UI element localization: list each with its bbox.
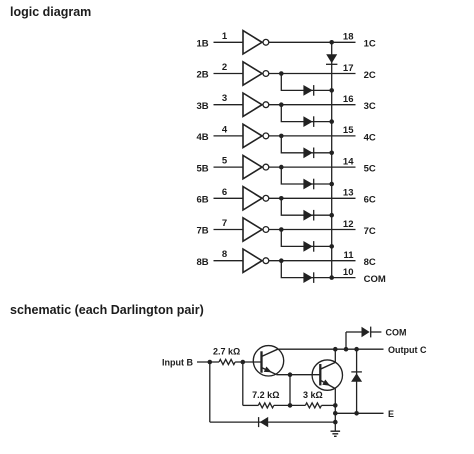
wire output 5C <box>269 166 356 168</box>
svg-text:7B: 7B <box>196 226 208 237</box>
svg-text:2.7 kΩ: 2.7 kΩ <box>213 347 240 357</box>
svg-text:3 kΩ: 3 kΩ <box>303 390 323 400</box>
svg-text:1: 1 <box>222 31 228 42</box>
wire base node to R2 <box>243 404 258 406</box>
wire Q2 collector riser <box>334 349 336 362</box>
svg-text:5B: 5B <box>196 163 208 174</box>
svg-text:Input B: Input B <box>162 357 193 367</box>
wire input 1B <box>214 41 244 43</box>
wire output 2C to diode D2 <box>281 74 332 91</box>
diode D1 (vertical on COM bus) <box>326 54 337 64</box>
wire bottom diode line <box>210 421 335 423</box>
wire output 1C <box>269 41 356 43</box>
svg-text:5C: 5C <box>364 164 376 175</box>
wire output 8C to diode D8 <box>281 261 332 278</box>
svg-text:17: 17 <box>343 63 354 74</box>
wire output 6C <box>269 197 356 199</box>
svg-text:6: 6 <box>222 187 227 198</box>
junction output 3C to diode D3 <box>279 102 284 107</box>
junction COM riser / rail <box>344 347 349 352</box>
svg-text:6C: 6C <box>364 195 376 206</box>
junction bottom line / ground stem <box>333 420 338 425</box>
rail Output C <box>278 348 384 350</box>
inverter U1 <box>243 31 269 54</box>
inverter U2 <box>243 62 269 85</box>
junction diode D7 / COM bus <box>329 244 334 249</box>
wire output 4C to diode D4 <box>281 136 332 153</box>
diode DOUT (output clamp, vertical) <box>351 349 362 413</box>
transistor Q1 <box>253 346 283 376</box>
junction output 6C to diode D6 <box>279 196 284 201</box>
svg-text:1B: 1B <box>196 39 208 50</box>
wire Q1 emitter to Q2 base <box>277 374 321 376</box>
junction Q1 base / R2 branch <box>241 360 246 365</box>
diode D7 <box>303 241 313 252</box>
svg-text:8B: 8B <box>196 257 208 268</box>
junction diode D4 / COM bus <box>329 151 334 156</box>
wire output 7C <box>269 229 356 231</box>
junction output 1C / COM bus <box>329 40 334 45</box>
diode D6 <box>303 210 313 221</box>
junction output 8C to diode D8 <box>279 258 284 263</box>
svg-text:16: 16 <box>343 94 354 105</box>
diode D5 <box>303 179 313 190</box>
inverter U5 <box>243 155 269 178</box>
wire output 3C to diode D3 <box>281 105 332 122</box>
wire COM riser <box>345 332 347 349</box>
wire output 8C <box>269 260 356 262</box>
svg-text:COM: COM <box>364 274 386 285</box>
svg-text:schematic (each Darlington pai: schematic (each Darlington pair) <box>10 303 204 317</box>
wire COM output <box>332 277 356 279</box>
junction Q2 collector / rail <box>333 347 338 352</box>
svg-text:5: 5 <box>222 156 228 167</box>
svg-text:13: 13 <box>343 188 354 199</box>
wire input 8B <box>214 260 244 262</box>
resistor R2 7.2k <box>258 403 274 408</box>
svg-text:4B: 4B <box>196 132 208 143</box>
svg-text:3C: 3C <box>364 101 376 112</box>
wire Input B <box>197 361 219 363</box>
wire output 2C <box>269 73 356 75</box>
svg-text:2C: 2C <box>364 70 376 81</box>
wire node base down to R2 line <box>242 362 244 405</box>
junction output 2C to diode D2 <box>279 71 284 76</box>
junction diode D2 / COM bus <box>329 88 334 93</box>
wire Q2 emitter down to ground <box>334 389 336 432</box>
wire junction down to R2/R3 node <box>289 375 291 406</box>
svg-text:12: 12 <box>343 219 354 230</box>
inverter U6 <box>243 187 269 210</box>
wire output 6C to diode D6 <box>281 198 332 215</box>
svg-text:7: 7 <box>222 218 227 229</box>
wire input 2B <box>214 73 244 75</box>
junction diode D8 / COM bus <box>329 275 334 280</box>
svg-text:3B: 3B <box>196 101 208 112</box>
svg-text:7.2 kΩ: 7.2 kΩ <box>252 390 279 400</box>
diode D4 <box>303 147 313 158</box>
junction Input B / bottom diode branch <box>208 360 213 365</box>
junction R3 / emitter vertical <box>333 403 338 408</box>
svg-text:8: 8 <box>222 249 227 260</box>
diode D8 <box>303 272 313 283</box>
wire output 7C to diode D7 <box>281 230 332 247</box>
svg-text:6B: 6B <box>196 195 208 206</box>
rail E <box>335 412 383 414</box>
junction output 7C to diode D7 <box>279 227 284 232</box>
svg-text:2: 2 <box>222 62 227 73</box>
junction Q2 emitter / E rail <box>333 411 338 416</box>
inverter U3 <box>243 93 269 116</box>
svg-text:E: E <box>388 409 394 419</box>
svg-text:1C: 1C <box>364 39 376 50</box>
svg-text:4C: 4C <box>364 132 376 143</box>
svg-text:COM: COM <box>386 327 407 337</box>
svg-text:2B: 2B <box>196 70 208 81</box>
wire output 5C to diode D5 <box>281 167 332 184</box>
junction diode D6 / COM bus <box>329 213 334 218</box>
inverter U8 <box>243 249 269 272</box>
wire Input B down to diode line <box>209 362 211 422</box>
wire input 6B <box>214 197 244 199</box>
wire output 3C <box>269 104 356 106</box>
svg-text:3: 3 <box>222 93 227 104</box>
wire R3 to emitter line <box>322 404 336 406</box>
wire input 7B <box>214 229 244 231</box>
wire DCOM to COM terminal <box>371 331 382 333</box>
svg-text:15: 15 <box>343 125 354 136</box>
junction R2/R3 node <box>288 403 293 408</box>
transistor Q2 <box>312 360 342 390</box>
svg-text:8C: 8C <box>364 257 376 268</box>
ground <box>331 431 341 436</box>
wire input 5B <box>214 166 244 168</box>
junction diode D3 / COM bus <box>329 119 334 124</box>
svg-text:Output C: Output C <box>388 345 427 355</box>
svg-text:14: 14 <box>343 156 354 167</box>
wire R2 to R3 <box>274 404 306 406</box>
svg-text:4: 4 <box>222 124 228 135</box>
wire R1 to Q1 base <box>235 361 261 363</box>
wire COM branch <box>346 331 362 333</box>
diode D2 <box>303 85 313 96</box>
junction DOUT / E rail <box>354 411 359 416</box>
wire COM bus <box>331 42 333 277</box>
resistor R1 2.7k <box>219 359 235 364</box>
diode D3 <box>303 116 313 127</box>
svg-text:18: 18 <box>343 32 354 43</box>
resistor R3 3k <box>305 403 321 408</box>
wire input 4B <box>214 135 244 137</box>
junction DOUT / rail <box>354 347 359 352</box>
inverter U4 <box>243 124 269 147</box>
junction diode D5 / COM bus <box>329 182 334 187</box>
wire input 3B <box>214 104 244 106</box>
wire output 4C <box>269 135 356 137</box>
junction output 5C to diode D5 <box>279 165 284 170</box>
inverter U7 <box>243 218 269 241</box>
diode DIN (input clamp) <box>259 417 269 427</box>
diode DCOM (to COM) <box>362 327 371 338</box>
junction output 4C to diode D4 <box>279 134 284 139</box>
svg-text:11: 11 <box>343 250 354 261</box>
junction Q2 base / R2 <box>288 372 293 377</box>
svg-text:7C: 7C <box>364 226 376 237</box>
svg-text:logic diagram: logic diagram <box>10 5 91 19</box>
svg-text:10: 10 <box>343 267 354 278</box>
